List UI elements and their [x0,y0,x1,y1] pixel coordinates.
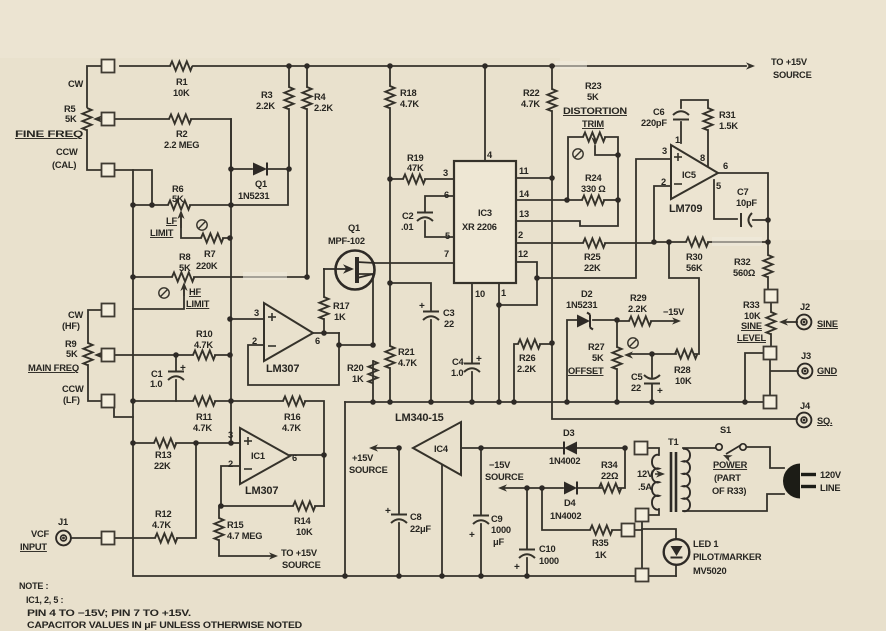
capacitor C4 [464,354,482,372]
wire C5 [651,354,653,402]
wire pin10 / C4 [471,283,473,402]
svg-text:(PART: (PART [714,473,741,483]
potentiometer R8 [172,272,194,296]
svg-text:J1: J1 [58,517,68,527]
svg-text:+: + [469,530,475,541]
svg-text:(HF): (HF) [62,321,80,331]
svg-text:5K: 5K [65,114,77,124]
svg-text:J2: J2 [800,302,810,312]
svg-text:22: 22 [444,319,454,329]
svg-text:6: 6 [315,336,320,346]
svg-text:SQ.: SQ. [817,416,832,426]
wire R2 row [114,119,231,205]
svg-text:OFFSET: OFFSET [568,366,604,376]
svg-text:2.2K: 2.2K [628,304,647,314]
resistor R17 [319,297,328,319]
wire C8 gaps [398,448,400,576]
arrow 12V coil [655,470,665,477]
svg-text:LIMIT: LIMIT [186,299,210,309]
svg-text:(CAL): (CAL) [52,160,76,170]
svg-text:6: 6 [444,190,449,200]
svg-text:1K: 1K [595,550,607,560]
wire PSU left edge and bottom gnd rail [344,402,346,576]
svg-text:C3: C3 [443,308,455,318]
svg-text:5K: 5K [179,263,191,273]
resistor R25 [583,238,605,247]
svg-text:R8: R8 [179,252,191,262]
svg-text:1N4002: 1N4002 [549,456,580,466]
wire pin14 [516,199,582,201]
wire R33 bottom square left to gnd riser [745,353,764,402]
svg-text:22K: 22K [154,461,171,471]
svg-text:C9: C9 [491,514,503,524]
wire R17 / FET gate drop [323,269,325,333]
svg-text:R20: R20 [347,363,363,373]
svg-text:MAIN FREQ: MAIN FREQ [28,363,79,373]
svg-text:R9: R9 [65,339,77,349]
resistor R4 [302,87,311,109]
svg-text:1: 1 [675,135,680,145]
svg-text:3: 3 [443,168,448,178]
svg-text:4.7K: 4.7K [194,340,213,350]
wire C1 vertical [175,355,177,401]
jack J2 [797,315,812,330]
svg-text:5K: 5K [592,353,604,363]
diode D1 leads [231,168,289,170]
potentiometer R9 [83,343,107,365]
svg-text:NOTE :: NOTE : [19,581,49,591]
screw adjust R27 [628,338,638,348]
svg-text:LM709: LM709 [669,203,702,215]
wire T1 secondary leads [647,448,659,515]
wire IC2 output row [313,333,372,345]
capacitor C2 [417,213,433,222]
svg-text:PILOT/MARKER: PILOT/MARKER [693,552,762,562]
wire pin12 gnd ref to IC5 pin3 [537,159,670,278]
svg-text:R25: R25 [584,252,600,262]
wire R14 right riser [315,505,324,507]
svg-text:R29: R29 [630,293,646,303]
svg-text:R27: R27 [588,342,604,352]
svg-text:D2: D2 [581,289,593,299]
resistor R35 [590,525,612,534]
svg-text:R13: R13 [155,450,171,460]
svg-text:2: 2 [252,336,257,346]
svg-text:R21: R21 [398,347,414,357]
wire R10 row y=355 [114,354,231,356]
svg-text:LED 1: LED 1 [693,539,718,549]
svg-text:SOURCE: SOURCE [485,472,524,482]
screw adjust R8 [159,288,169,298]
svg-text:1000: 1000 [491,525,511,535]
AC plug [783,464,816,499]
svg-text:IC1: IC1 [251,451,265,461]
resistor R19 [403,174,425,183]
wire IC5 output [717,173,768,220]
wire node bus x=133 vertical [133,170,676,576]
svg-text:8: 8 [700,153,705,163]
svg-text:R18: R18 [400,88,416,98]
svg-text:2: 2 [661,177,666,187]
svg-text:SINE: SINE [817,319,838,329]
resistor R34 [599,483,621,492]
svg-text:C4: C4 [452,357,465,367]
svg-text:2.2K: 2.2K [517,364,536,374]
wire IC5 pin1/C6/R31 [681,100,708,166]
svg-text:−15V: −15V [663,307,685,317]
wire pin2 row to R25 [516,242,654,244]
svg-text:22: 22 [631,383,641,393]
jack J1 [56,531,71,546]
svg-text:IC3: IC3 [478,208,492,218]
wire IC2 +in [230,318,263,320]
wire D2 box [567,320,617,402]
resistor R14 [293,501,315,510]
svg-text:MV5020: MV5020 [693,566,726,576]
wire FET drain to pin7 [375,262,454,264]
svg-text:330 Ω: 330 Ω [581,184,606,194]
svg-text:1N5231: 1N5231 [566,300,597,310]
capacitor C8 [385,506,407,523]
wire R32 [767,220,769,290]
svg-text:+15V: +15V [352,453,374,463]
wire R19 row [390,178,454,180]
wire R33 wiper from J2 [786,321,797,323]
svg-text:OF R33): OF R33) [712,486,746,496]
svg-text:R34: R34 [601,460,618,470]
svg-text:R11: R11 [196,412,212,422]
wire IC1 -in loop [221,466,293,506]
screw adjust R6 [197,220,207,230]
svg-text:14: 14 [519,189,530,199]
wire T1 gnd vertical x=642 [641,521,643,570]
svg-text:LM340-15: LM340-15 [395,412,444,424]
wire J3 tap and riser to gnd square [770,359,798,396]
svg-text:4.7K: 4.7K [193,423,212,433]
svg-text:10pF: 10pF [736,198,757,208]
wire R9 bottom [88,365,102,401]
svg-text:3: 3 [662,146,667,156]
resistor R31 [703,108,712,130]
svg-text:3: 3 [254,308,259,318]
svg-text:POWER: POWER [713,460,748,470]
wire S1 to plug [747,447,784,468]
svg-text:CW: CW [68,79,84,89]
wire R29 row [617,320,674,322]
wire R18 node vertical x=390 [389,66,391,402]
svg-text:1K: 1K [334,312,346,322]
svg-text:+: + [514,562,520,573]
wire R23 box [568,137,618,200]
capacitor C9 [469,516,489,542]
svg-text:5: 5 [716,181,721,191]
svg-text:T1: T1 [668,437,678,447]
svg-text:10K: 10K [296,527,313,537]
svg-text:R14: R14 [294,516,311,526]
svg-text:C7: C7 [737,187,749,197]
svg-text:13: 13 [519,209,529,219]
resistor R20 [368,361,377,383]
wire R27 wiper arrow lead [630,353,652,355]
svg-text:CCW: CCW [56,147,78,157]
svg-text:R6: R6 [172,184,184,194]
svg-text:+: + [657,386,663,397]
svg-text:22K: 22K [584,263,601,273]
svg-text:R23: R23 [585,81,601,91]
svg-text:3: 3 [228,430,233,440]
switch S1 [716,444,746,454]
svg-text:1000: 1000 [539,556,559,566]
resistor R3 [284,87,293,109]
svg-text:SINE: SINE [741,321,762,331]
wire ground rail y=402 [345,401,764,403]
wire square bus x=552 and J4 line [552,66,797,419]
svg-text:4.7K: 4.7K [400,99,419,109]
regulator IC4 LM340-15 [413,422,461,475]
diode D4 1N4002 [564,482,577,495]
wire IC5 pin5 to C7 [714,180,737,219]
svg-text:R3: R3 [261,90,273,100]
svg-text:R35: R35 [592,538,608,548]
resistor R10 [193,350,215,359]
svg-text:C5: C5 [631,372,643,382]
svg-text:J3: J3 [801,351,811,361]
svg-text:CW: CW [68,310,84,320]
wire C2 pin6 pin5 [425,196,454,237]
svg-text:2: 2 [228,459,233,469]
svg-text:R7: R7 [204,249,216,259]
svg-text:2.2K: 2.2K [256,101,275,111]
wire IC1 out [290,455,324,506]
arrow top rail TO +15V [746,62,755,69]
svg-text:TO +15V: TO +15V [281,548,318,558]
svg-text:LIMIT: LIMIT [150,228,174,238]
wire R15 [219,506,272,556]
svg-text:(LF): (LF) [63,395,80,405]
svg-text:12: 12 [518,249,528,259]
svg-text:S1: S1 [720,425,731,435]
svg-text:R1: R1 [176,77,188,87]
svg-text:R22: R22 [523,88,539,98]
svg-text:HF: HF [189,287,202,297]
svg-text:12V: 12V [637,469,654,479]
svg-text:6: 6 [723,161,728,171]
diode D1 (Q1 1N5231) [253,163,267,176]
resistor R1 [170,61,192,70]
svg-text:5K: 5K [66,349,78,359]
svg-text:4.7K: 4.7K [282,423,301,433]
potentiometer R23 [583,132,605,146]
wire pin12 drop [499,262,537,305]
wire C3 branch [390,283,431,402]
capacitor C5 [644,375,660,384]
potentiometer R33 [766,312,788,334]
resistor R28 [675,349,697,358]
potentiometer R5 [82,108,107,130]
wire pin13 [516,203,618,226]
diode D2 1N5231 zener [577,313,593,330]
svg-text:GND: GND [817,366,838,376]
svg-text:LM307: LM307 [245,485,278,497]
svg-text:μF: μF [493,537,504,547]
svg-text:MPF-102: MPF-102 [328,236,365,246]
svg-text:10K: 10K [173,88,190,98]
resistor R21 [385,346,394,368]
svg-text:VCF: VCF [31,529,50,539]
svg-text:4.7K: 4.7K [398,358,417,368]
op-amp IC5 LM709 [671,145,718,199]
svg-text:.01: .01 [401,222,413,232]
jack J4 [797,413,812,428]
wire R24 row y=200 [604,199,618,201]
wire R9 top [88,310,102,343]
svg-text:56K: 56K [686,263,703,273]
svg-text:IC1, 2, 5 :: IC1, 2, 5 : [26,595,64,605]
svg-text:2: 2 [518,230,523,240]
diode D3 1N4002 [564,442,577,455]
svg-text:+: + [180,363,186,374]
wire C10 [526,488,528,576]
wire R5 bottom lead to CAL square [87,130,102,170]
wire CCW LF square jog to bus [114,407,133,417]
wire IC4 ground lead [441,465,443,576]
resistor R7 [201,233,223,242]
svg-text:220K: 220K [196,261,218,271]
svg-text:FINE FREQ: FINE FREQ [15,129,83,139]
svg-text:220pF: 220pF [641,118,667,128]
wire CAL square to LF bus [114,170,152,205]
svg-text:4.7 MEG: 4.7 MEG [227,531,262,541]
svg-text:IC5: IC5 [682,170,696,180]
wire LED leads [642,529,676,576]
svg-text:R31: R31 [719,110,735,120]
wire R3 vertical [288,66,290,169]
svg-text:+: + [419,301,425,312]
svg-text:CAPACITOR VALUES IN μF UNLESS: CAPACITOR VALUES IN μF UNLESS OTHERWISE … [27,620,303,630]
svg-text:2.2 MEG: 2.2 MEG [164,140,199,150]
wire R8 wiper to bus [133,285,184,309]
svg-text:10K: 10K [744,311,761,321]
svg-text:SOURCE: SOURCE [773,70,812,80]
wire bus x=230 [230,119,232,443]
resistor R13 [154,438,176,447]
white-out scan artifacts [243,272,287,280]
wire IC4 out node [375,447,399,449]
arrow to -15V [672,317,681,324]
svg-text:J4: J4 [800,401,811,411]
wire -15V row [504,448,625,488]
svg-text:R24: R24 [585,173,602,183]
IC XR2206 IC3 [454,161,516,283]
wire R28 riser to summing row [652,242,699,354]
svg-text:2.2K: 2.2K [314,103,333,113]
svg-text:LEVEL: LEVEL [737,333,766,343]
resistor R12 [155,533,177,542]
wire C7 right [753,219,768,221]
svg-text:−15V: −15V [489,460,511,470]
transistor Q1 MPF-102 [323,251,375,290]
svg-text:1.5K: 1.5K [719,121,738,131]
wire y=242 row [654,241,768,243]
svg-text:120V: 120V [820,470,842,480]
svg-text:4.7K: 4.7K [521,99,540,109]
resistor R2 [169,114,191,123]
svg-text:Q1: Q1 [255,179,267,189]
wire R4 vertical [306,66,308,277]
transformer T1 [652,449,690,512]
svg-text:R5: R5 [64,104,76,114]
wire pin4 top [484,66,486,161]
wire pin11 [516,177,552,179]
svg-text:R12: R12 [155,509,171,519]
capacitor C6 [673,111,689,119]
op-amp IC2 [264,303,313,361]
svg-text:R30: R30 [686,252,702,262]
svg-text:1.0: 1.0 [451,368,463,378]
wire IC2 -in feedback loop [248,333,339,385]
svg-text:10: 10 [475,289,485,299]
svg-text:R17: R17 [333,301,349,311]
svg-text:1.0: 1.0 [150,379,162,389]
wire T1 primary leads [683,448,784,511]
svg-text:DISTORTION: DISTORTION [563,106,628,116]
svg-text:C2: C2 [402,211,414,221]
svg-text:560Ω: 560Ω [733,268,756,278]
svg-text:CCW: CCW [62,384,84,394]
resistor R11 [193,396,215,405]
svg-text:6: 6 [292,453,297,463]
svg-text:22μF: 22μF [410,524,431,534]
resistor R15 [214,518,223,540]
svg-text:.5A: .5A [638,482,652,492]
wire R23 wiper [595,146,618,155]
resistor R29 [629,316,651,325]
svg-text:INPUT: INPUT [20,542,47,552]
wire R35 row [542,488,642,530]
svg-text:D3: D3 [563,428,575,438]
svg-text:C6: C6 [653,107,665,117]
wire R33 [770,302,772,347]
svg-text:SOURCE: SOURCE [349,465,388,475]
arrow +15V source [369,444,378,451]
svg-text:R4: R4 [314,92,327,102]
svg-text:1K: 1K [352,374,364,384]
wire R26 [514,344,552,402]
capacitor C1 [168,363,186,380]
svg-text:LM307: LM307 [266,363,299,375]
svg-text:LINE: LINE [820,483,840,493]
wire R11 R16 row [133,401,324,455]
svg-text:1N5231: 1N5231 [238,191,269,201]
svg-text:R19: R19 [407,153,423,163]
svg-text:Q1: Q1 [348,223,360,233]
wire R8 row y=277 [133,276,307,278]
svg-text:LF: LF [166,216,177,226]
svg-text:22Ω: 22Ω [601,471,619,481]
wire pin1 [498,283,500,402]
svg-text:TO +15V: TO +15V [771,57,808,67]
wire IC4 input row [461,447,625,449]
capacitor C3 [419,301,439,320]
resistor R26 [518,339,540,348]
svg-text:10K: 10K [675,376,692,386]
svg-text:R33: R33 [743,300,759,310]
capacitor C7 [741,213,752,227]
capacitor C10 [514,550,535,574]
wire IC5 pin2 drop [654,186,670,242]
svg-text:4.7K: 4.7K [152,520,171,530]
resistor R30 [686,237,708,246]
